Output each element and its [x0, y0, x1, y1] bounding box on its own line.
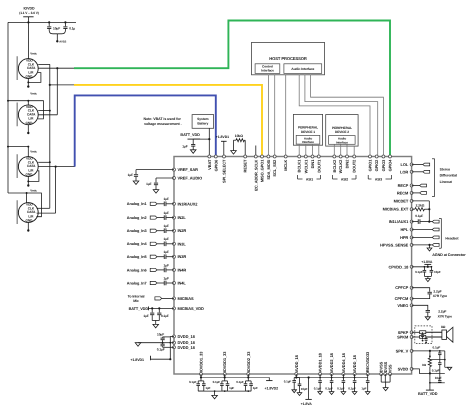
ground MICBIAS_VDD caps	[152, 320, 159, 322]
pin MICBIAS	[173, 297, 176, 300]
capacitor 0.1&#181;F bottom pin 343.4	[342, 374, 344, 380]
svg-text:IOVDD1_33: IOVDD1_33	[199, 351, 204, 372]
connector lineout RECP	[420, 184, 427, 187]
pin DVDD_18	[173, 341, 176, 344]
pin SDA_MOSI	[267, 155, 270, 158]
svg-text:10µF: 10µF	[434, 270, 441, 274]
svg-text:0.1µF: 0.1µF	[415, 214, 423, 218]
wire HPL to plug	[412, 229, 433, 231]
svg-text:WCLK2: WCLK2	[338, 159, 343, 173]
wire PD1 DOUT1	[318, 145, 320, 155]
pin DVDD_18	[173, 335, 176, 338]
ground SVDD caps	[444, 360, 446, 368]
capacitor 1uF Analog_In7	[163, 281, 165, 286]
capacitor 1uF Analog_In1	[163, 202, 165, 207]
svg-text:CPFCM: CPFCM	[395, 296, 409, 301]
svg-text:1µF: 1µF	[205, 386, 210, 390]
svg-text:Note: VBAT is used for: Note: VBAT is used for	[144, 117, 182, 121]
svg-text:RECVDD33: RECVDD33	[365, 351, 370, 372]
pin BCLK1	[298, 155, 301, 158]
svg-text:CPFCP: CPFCP	[395, 285, 408, 290]
svg-text:+1.8VD1: +1.8VD1	[216, 135, 229, 139]
svg-text:BCLK1: BCLK1	[297, 159, 302, 173]
wire DVDD pin bus	[169, 336, 171, 359]
svg-text:2.2kΩ: 2.2kΩ	[416, 204, 425, 208]
capacitor 0.1uF DVDD	[162, 343, 164, 344]
svg-text:DVDD_18: DVDD_18	[178, 334, 196, 339]
pin RECM	[410, 191, 413, 194]
svg-text:0.1µF: 0.1µF	[161, 314, 169, 318]
ground VBAT cap	[190, 150, 196, 154]
svg-text:Analog_In6: Analog_In6	[127, 268, 147, 272]
wire host to GPIO3	[311, 75, 384, 155]
ferrite bead SPKP	[420, 331, 426, 334]
svg-text:MICBIAS_EXT: MICBIAS_EXT	[383, 207, 409, 212]
svg-text:AVDD_18: AVDD_18	[294, 354, 299, 372]
capacitor 1uF Analog_In6	[163, 268, 165, 273]
svg-text:CPVDD_18: CPVDD_18	[388, 264, 409, 269]
wire RECP to plug	[412, 185, 420, 187]
pin MICBIAS_EXT	[410, 208, 413, 211]
svg-text:0.1µF: 0.1µF	[236, 380, 244, 384]
pin IN4R	[173, 268, 176, 271]
svg-text:3Ω: 3Ω	[422, 363, 427, 367]
pin IOVDD1_33	[200, 373, 203, 376]
svg-text:VREF_AUDIO: VREF_AUDIO	[178, 176, 203, 181]
svg-text:I2C_ADDR_SCLK: I2C_ADDR_SCLK	[253, 159, 258, 191]
wire MCLK	[285, 75, 287, 155]
wire host to GPIO2	[305, 75, 378, 155]
capacitor 0.1uF MICBIAS_VDD	[158, 308, 160, 312]
capacitor 1uF Analog_In3	[163, 228, 165, 233]
wire battery to VBAT	[208, 128, 210, 155]
ground 10k	[233, 140, 235, 150]
svg-text:2.2µF: 2.2µF	[438, 309, 446, 313]
svg-text:1µF: 1µF	[164, 224, 169, 228]
wire SVDD	[412, 369, 430, 374]
pin GPIO1	[369, 155, 372, 158]
svg-text:DVDD_18: DVDD_18	[178, 345, 196, 350]
capacitor 1uF Analog_In2	[163, 215, 165, 220]
svg-text:Vmic: Vmic	[30, 189, 37, 193]
pin CPVDD_18	[410, 265, 413, 268]
wire PDM CLK bus	[49, 64, 51, 208]
svg-text:ASI2: ASI2	[341, 177, 348, 181]
bracket ASI2	[332, 175, 334, 179]
pin WCLK2	[339, 155, 342, 158]
wire HPR to plug	[412, 236, 433, 238]
block HOST PROCESSOR	[252, 42, 325, 74]
svg-text:+1.8VD1: +1.8VD1	[130, 358, 144, 362]
pin IN2L	[173, 216, 176, 219]
svg-text:DIN2: DIN2	[345, 159, 350, 169]
svg-text:Analog_In1: Analog_In1	[127, 202, 147, 206]
svg-text:0.1µF: 0.1µF	[337, 387, 345, 391]
pin IN4L	[173, 282, 176, 285]
pin LOL	[410, 163, 413, 166]
pin VREF_SAR	[173, 168, 176, 171]
svg-text:IN4L: IN4L	[178, 281, 187, 286]
wire yellow PDM CLK to MISO_GPO1	[50, 84, 74, 86]
svg-text:X7R Type: X7R Type	[438, 314, 452, 318]
capacitor 1&#181;F bottom pin 367.7	[367, 374, 369, 380]
svg-text:0.1µF: 0.1µF	[348, 387, 356, 391]
svg-text:Analog_In5: Analog_In5	[127, 255, 147, 259]
pin SPKM	[410, 336, 413, 339]
svg-text:10µF: 10µF	[435, 376, 442, 380]
svg-text:1µF: 1µF	[164, 276, 169, 280]
ground AVDD cap1	[292, 390, 297, 393]
block PERIPHERAL DEVICE 2	[326, 115, 358, 147]
pin WCLK1	[304, 155, 307, 158]
pin MICBIAS_VDD	[173, 307, 176, 310]
svg-text:SPI_SELECT: SPI_SELECT	[222, 159, 227, 183]
wire MIC4 L/R tie to VDD	[27, 193, 42, 217]
svg-text:Headset: Headset	[445, 236, 459, 240]
ground AGND headset	[429, 245, 431, 248]
capacitor 1uF VREF_AUDIO	[156, 177, 174, 179]
pin HPL	[410, 228, 413, 231]
pin AVDD_18	[353, 373, 356, 376]
wire I2C SCL	[274, 75, 276, 155]
power flag BATT_VDD bottom	[426, 389, 434, 391]
svg-text:IN3L: IN3L	[178, 241, 187, 246]
wire caps to AVSS dot	[49, 29, 57, 34]
connector lineout LOR	[423, 170, 430, 173]
svg-text:GND: GND	[25, 75, 33, 79]
svg-text:Lineout: Lineout	[440, 180, 453, 184]
svg-text:Interface: Interface	[261, 69, 274, 73]
svg-text:IN1R/AUX2: IN1R/AUX2	[178, 201, 199, 206]
svg-text:GND: GND	[25, 121, 33, 125]
svg-text:MICBIAS: MICBIAS	[178, 296, 195, 301]
svg-text:voltage measurement .: voltage measurement .	[144, 122, 182, 126]
wire IN1L to plug	[429, 221, 432, 223]
ground VREF_SAR	[133, 181, 139, 185]
pin IN3R	[173, 255, 176, 258]
svg-text:GND: GND	[25, 173, 33, 177]
svg-text:0.1µF: 0.1µF	[213, 380, 221, 384]
digital microphone MIC1	[18, 59, 38, 79]
wire MIC2 CLK to bus	[38, 110, 50, 112]
block System Battery	[192, 115, 214, 129]
pin IOVDD1_33	[223, 373, 226, 376]
pin MCLK	[284, 155, 287, 158]
svg-text:System: System	[197, 117, 208, 121]
svg-text:Analog_In7: Analog_In7	[127, 281, 147, 285]
svg-text:IN4R: IN4R	[178, 267, 187, 272]
connector lineout RECM	[420, 192, 427, 195]
pin IN1R/AUX2	[173, 202, 176, 205]
capacitor 0.1&#181;F bottom pin 354.6	[354, 374, 356, 380]
wire DVSS join	[380, 374, 382, 382]
svg-text:AVDD1_18: AVDD1_18	[318, 352, 323, 372]
svg-text:10µF: 10µF	[157, 333, 164, 337]
svg-text:0.1µF: 0.1µF	[157, 347, 165, 351]
wire LOL to plug	[412, 164, 423, 166]
pin LOR	[410, 170, 413, 173]
wire host to GPIO1	[299, 75, 370, 155]
svg-text:RECM: RECM	[397, 190, 409, 195]
pin IN3L	[173, 242, 176, 245]
pin SPI_SELECT	[223, 155, 226, 158]
pin IN1L/AUX1	[410, 220, 413, 223]
wire MIC3 L/R loop to GND	[28, 171, 39, 182]
svg-text:ASI3: ASI3	[375, 177, 382, 181]
svg-text:MCLK: MCLK	[283, 159, 288, 170]
speaker SPK 8ohm	[442, 330, 447, 339]
svg-text:LOR: LOR	[400, 169, 408, 174]
svg-text:RESET: RESET	[243, 159, 248, 172]
svg-text:IN2L: IN2L	[178, 215, 187, 220]
svg-text:HOST PROCESSOR: HOST PROCESSOR	[269, 56, 307, 61]
svg-text:1µF: 1µF	[143, 314, 148, 318]
capacitor 2.2uF VNEG	[412, 305, 428, 310]
svg-text:IN3R: IN3R	[178, 254, 187, 259]
svg-text:MICDET: MICDET	[394, 198, 409, 203]
pin IN2R	[173, 229, 176, 232]
wire MIC1 CLK to bus	[38, 63, 50, 65]
wire PD2 DOUT2	[353, 146, 355, 155]
svg-text:Differential: Differential	[440, 174, 458, 178]
svg-text:VREF_SAR: VREF_SAR	[178, 167, 199, 172]
wire SPKM	[412, 336, 420, 338]
pin VBAT	[208, 155, 211, 158]
pin CPFCP	[410, 286, 413, 289]
pin GPIO4	[389, 155, 392, 158]
wire MIC3 DATA to blue	[38, 166, 74, 168]
capacitor 1uF Analog_In5	[163, 254, 165, 259]
pin SPK_V	[410, 349, 413, 352]
capacitor 0.1uF CPVDD	[423, 267, 425, 270]
svg-text:0.1µF: 0.1µF	[325, 387, 333, 391]
connector headset HPR	[432, 236, 439, 239]
svg-text:To Internal: To Internal	[128, 294, 145, 298]
block Control Interface	[255, 64, 280, 74]
power flag +1.8VA bottom	[308, 378, 310, 400]
wire SPKP	[412, 331, 420, 333]
svg-text:10µF: 10µF	[53, 26, 60, 30]
pin DVSS	[380, 373, 383, 376]
bracket Stereo Differential Lineout	[432, 158, 435, 160]
svg-text:AVSS: AVSS	[59, 41, 66, 44]
svg-text:GPIO2: GPIO2	[374, 159, 379, 172]
pin IOVDD2_33	[247, 373, 250, 376]
pin HPVSS_SENSE	[410, 243, 413, 246]
capacitor 10uF IOVDD	[48, 22, 50, 26]
pin AVDD4_18	[342, 373, 345, 376]
wire MIC4 CLK to bus	[37, 207, 50, 209]
pin DIN2	[346, 155, 349, 158]
svg-text:HPVSS_SENSE: HPVSS_SENSE	[380, 242, 408, 247]
pin BCLK2	[333, 155, 336, 158]
ground AVDD cap2	[297, 393, 302, 396]
svg-text:MISO_GPO1: MISO_GPO1	[260, 159, 265, 182]
wire blue PDM DATA34 to GPIO6	[75, 95, 216, 166]
svg-text:AVDD2_18: AVDD2_18	[329, 352, 334, 372]
wire MIC1 DATA to bus	[38, 67, 57, 69]
pin VSS	[389, 373, 392, 376]
capacitor pair IOVDD 201.0	[200, 374, 202, 381]
svg-text:1µF: 1µF	[164, 237, 169, 241]
wire MIC4 DATA to bus	[37, 212, 56, 214]
IC codec body	[174, 157, 412, 375]
ground IOVDD caps	[214, 391, 216, 395]
wire RECM to plug	[412, 192, 420, 194]
pin SVDD	[410, 367, 413, 370]
wire MIC1 VDD	[27, 22, 29, 58]
pin AVDD2_18	[330, 373, 333, 376]
svg-text:VBAT: VBAT	[207, 159, 212, 170]
svg-text:DEVICE 1: DEVICE 1	[301, 130, 315, 134]
svg-text:WCLK1: WCLK1	[303, 159, 308, 173]
svg-text:GND: GND	[25, 219, 33, 223]
svg-text:Vmic: Vmic	[30, 52, 37, 56]
wire MIC2 VDD	[8, 100, 28, 102]
wire MICBIAS_EXT node down	[428, 209, 430, 221]
wire Vmic left rail	[7, 22, 9, 193]
wire DVDD to ground	[163, 342, 171, 344]
svg-text:0.1µF: 0.1µF	[432, 369, 440, 373]
svg-text:1µF: 1µF	[164, 263, 169, 267]
svg-text:VNEG: VNEG	[397, 303, 408, 308]
wire PDM DATA12 bus	[56, 68, 58, 115]
svg-text:GPIO3: GPIO3	[381, 159, 386, 172]
svg-text:BCLK2: BCLK2	[332, 159, 337, 173]
capacitor pair IOVDD 224.7	[224, 374, 226, 381]
svg-text:10kΩ: 10kΩ	[235, 134, 243, 138]
svg-text:AVDD4_18: AVDD4_18	[341, 352, 346, 372]
pin VREF_AUDIO	[173, 177, 176, 180]
svg-text:BATT_VDD: BATT_VDD	[418, 392, 438, 396]
wire MICDET to headset mic node	[412, 200, 430, 202]
svg-text:0.1µF: 0.1µF	[415, 270, 423, 274]
pin HPR	[410, 236, 413, 239]
digital microphone MIC2	[18, 105, 38, 125]
bracket ASI1	[297, 175, 299, 179]
pin RESET	[244, 155, 247, 158]
pin CPFCM	[410, 297, 413, 300]
ground AVSS terminal	[56, 40, 58, 42]
svg-text:+1.8VA: +1.8VA	[301, 402, 313, 406]
pin AVDD_18	[295, 373, 298, 376]
svg-text:+1.8VA: +1.8VA	[421, 260, 433, 264]
wire MIC1 GND	[27, 78, 29, 86]
pin DOUT1	[317, 155, 320, 158]
svg-text:0.1µF: 0.1µF	[189, 380, 197, 384]
wire PD2 DIN2	[346, 144, 348, 155]
wire MIC3 CLK to bus	[38, 161, 50, 163]
svg-text:HPR: HPR	[400, 235, 408, 240]
pin VNEG	[410, 304, 413, 307]
pin GPIO3	[382, 155, 385, 158]
svg-text:AVDD_18: AVDD_18	[352, 354, 357, 372]
wire PD2 BCLK2	[333, 144, 335, 155]
svg-text:GPIO6: GPIO6	[213, 159, 218, 172]
svg-text:(1.1 V – 3.6 V): (1.1 V – 3.6 V)	[19, 11, 39, 15]
wire MIC3 GND	[27, 176, 29, 185]
capacitor 10uF AVDD_18	[299, 378, 301, 384]
wire PD2 WCLK2	[340, 144, 342, 155]
block host Audio Interface	[284, 64, 322, 74]
capacitor 1uF Analog_In4	[163, 242, 165, 247]
wire IOVDD caps gnd bus	[198, 390, 251, 392]
connector headset mic	[432, 220, 439, 223]
capacitor 0.1uF IOVDD	[64, 22, 66, 26]
pin GPIO2	[375, 155, 378, 158]
capacitor 1uF MICBIAS_VDD	[151, 308, 153, 312]
pin MICDET	[410, 199, 413, 202]
svg-text:0.1µF: 0.1µF	[433, 345, 441, 349]
svg-text:Vmic: Vmic	[30, 150, 37, 154]
wire PDM DATA34 bus	[55, 167, 57, 214]
wire I2C_ADDR_SCLK stub	[255, 146, 257, 156]
svg-text:+1.8VD2: +1.8VD2	[265, 386, 279, 390]
pin MISO_GPO1	[261, 155, 264, 158]
pin DVSS	[384, 373, 387, 376]
svg-text:0.1µF: 0.1µF	[284, 379, 292, 383]
filter EMI dashed box	[415, 326, 432, 344]
wire SPK_V node	[429, 351, 431, 358]
capacitor EMI 2	[425, 337, 427, 338]
svg-text:1µF: 1µF	[182, 145, 187, 149]
pin DVDD_18	[173, 346, 176, 349]
wire HPVSS to plug	[412, 244, 433, 246]
capacitor EMI 1	[422, 332, 424, 334]
svg-text:Mic: Mic	[133, 299, 139, 303]
ground VREF_AUDIO	[153, 190, 159, 194]
svg-text:X7R Type: X7R Type	[433, 294, 447, 298]
svg-text:Audio Interface: Audio Interface	[291, 67, 314, 71]
svg-text:1µF: 1µF	[164, 211, 169, 215]
svg-text:2.2µF: 2.2µF	[433, 290, 441, 294]
capacitor 0.1uF AVDD_18	[295, 374, 297, 378]
svg-text:DOUT1: DOUT1	[316, 159, 321, 173]
svg-text:0.1µ: 0.1µ	[69, 26, 75, 30]
bracket ASI3	[367, 175, 369, 179]
ground DVSS	[383, 388, 388, 391]
svg-text:Interface: Interface	[302, 140, 314, 144]
capacitor 2.2uF flying CPFCP CPFCM	[412, 288, 430, 292]
power bar IOVDD	[23, 16, 33, 18]
wire cap column	[444, 351, 446, 360]
wire LOR to plug	[412, 171, 423, 173]
svg-text:10µF: 10µF	[301, 387, 308, 391]
wire IOVDD bus	[8, 21, 76, 23]
wire MIC2 DATA to bus	[38, 114, 57, 116]
capacitor 1uF VBAT	[191, 144, 195, 146]
svg-text:SDA_MOSI: SDA_MOSI	[266, 160, 271, 180]
pin I2C_ADDR_SCLK	[254, 155, 257, 158]
svg-text:IOVDD2_33: IOVDD2_33	[246, 351, 251, 372]
ferrite bead SPKM	[420, 335, 426, 338]
power flag +1.8VD2	[268, 377, 270, 380]
svg-text:ASI1: ASI1	[306, 177, 313, 181]
wire PD1 BCLK1	[298, 144, 300, 155]
block PERIPHERAL DEVICE 1	[293, 114, 322, 145]
svg-text:Interface: Interface	[336, 140, 348, 144]
wire PD1 WCLK1	[305, 144, 307, 155]
wire green PDM DATA12 to GPIO4	[57, 67, 74, 69]
capacitor 10uF CPVDD	[430, 267, 432, 270]
pin RECVDD33	[366, 373, 369, 376]
pin RECP	[410, 184, 413, 187]
svg-text:1µF: 1µF	[253, 386, 258, 390]
wire MIC2 GND	[27, 125, 29, 133]
svg-text:1µF: 1µF	[164, 250, 169, 254]
svg-text:1µF: 1µF	[361, 387, 366, 391]
svg-text:8Ω: 8Ω	[441, 325, 446, 329]
